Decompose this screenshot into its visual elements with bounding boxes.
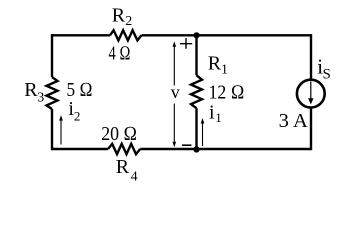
plus sign — [180, 38, 192, 49]
svg-text:v: v — [171, 82, 180, 102]
svg-text:i: i — [209, 101, 215, 123]
wire left-bottom segment — [51, 109, 53, 150]
svg-text:R: R — [208, 53, 222, 75]
arrow i2 — [60, 120, 62, 145]
svg-text:R: R — [116, 156, 130, 178]
svg-text:R: R — [24, 79, 38, 101]
svg-text:1: 1 — [215, 110, 222, 125]
resistor R3 — [47, 77, 58, 109]
svg-text:4 Ω: 4 Ω — [109, 43, 131, 65]
current source arrow — [310, 82, 312, 100]
wire right side bottom — [310, 108, 312, 150]
minus sign — [182, 144, 191, 146]
svg-text:2: 2 — [74, 109, 81, 124]
wire middle branch bottom — [195, 108, 197, 149]
current source circle — [297, 80, 325, 108]
wire bottom-left segment — [52, 148, 108, 150]
svg-text:3 A: 3 A — [279, 110, 309, 132]
arrow i1 — [202, 123, 204, 147]
svg-text:2: 2 — [125, 14, 132, 29]
wire left side — [51, 34, 53, 77]
resistor R4 — [108, 144, 140, 154]
svg-text:R: R — [112, 5, 126, 27]
svg-text:20 Ω: 20 Ω — [101, 123, 137, 145]
svg-text:1: 1 — [221, 62, 228, 77]
svg-text:S: S — [323, 67, 331, 83]
wire top-left segment — [52, 34, 110, 36]
wire middle branch top — [195, 35, 197, 75]
wire top-right segment — [142, 34, 312, 36]
wire right side top — [310, 34, 312, 79]
node bottom junction — [193, 146, 199, 152]
node top junction — [193, 32, 199, 38]
wire bottom-right segment — [140, 148, 311, 150]
svg-text:4: 4 — [131, 169, 138, 184]
svg-text:3: 3 — [37, 91, 44, 106]
resistor R2 — [110, 30, 142, 40]
resistor R1 — [191, 75, 202, 108]
v arrow (double headed) — [173, 46, 175, 143]
svg-text:12 Ω: 12 Ω — [209, 82, 245, 104]
